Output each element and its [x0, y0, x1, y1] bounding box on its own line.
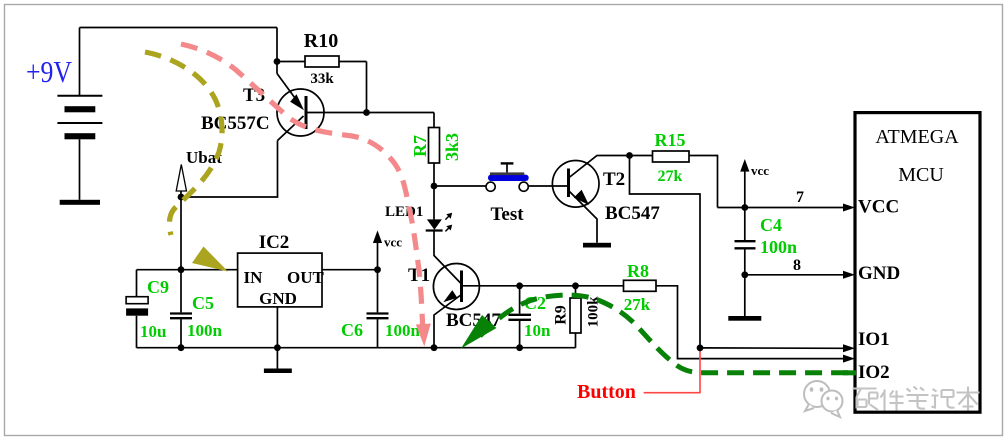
capacitor C4	[735, 241, 756, 248]
transistor T1	[433, 264, 479, 310]
node button / IO1	[697, 345, 704, 352]
vcc arrow at C4	[740, 159, 749, 172]
svg-text:27k: 27k	[658, 168, 683, 185]
wire R10 left lead	[277, 61, 305, 63]
wire IC2 OUT to vcc node	[322, 269, 378, 271]
node C2 top	[516, 282, 523, 289]
pink arrowhead	[416, 324, 431, 347]
svg-text:VCC: VCC	[858, 197, 899, 218]
svg-text:Button: Button	[577, 381, 636, 403]
node T2 collector / R15	[626, 152, 633, 159]
ground under IC2	[264, 369, 292, 374]
wire C9 branch	[136, 270, 138, 348]
svg-text:8: 8	[793, 257, 801, 274]
wire R10 right lead	[339, 61, 367, 63]
wire top rail	[80, 27, 278, 29]
svg-text:MCU: MCU	[898, 164, 944, 186]
svg-text:C5: C5	[192, 293, 214, 313]
wire LED cathode to T1 collector	[434, 231, 462, 284]
node R10 bottom / T3 base	[363, 109, 370, 116]
wire GND line to MCU	[745, 274, 844, 276]
wire VCC line to MCU	[718, 207, 845, 209]
node GND / C4	[741, 271, 748, 278]
node R7 / LED / Test	[431, 183, 438, 190]
svg-text:IC2: IC2	[259, 232, 290, 253]
svg-text:T2: T2	[603, 169, 625, 190]
watermark text 硬件笔记本 (simplified strokes)	[853, 387, 980, 411]
pink dashed highlight curve	[181, 44, 423, 333]
svg-text:LED1: LED1	[385, 204, 423, 220]
wire R7 bottom to LED node	[433, 163, 435, 186]
resistor R8	[624, 280, 657, 291]
wire vcc arrow stem at C4	[744, 171, 746, 208]
watermark wechat icon	[804, 381, 843, 417]
wire battery top lead	[79, 28, 81, 96]
ground under T2	[583, 243, 611, 248]
svg-text:R9: R9	[553, 305, 570, 325]
green dashed highlight curve	[480, 295, 853, 373]
svg-text:GND: GND	[259, 289, 297, 308]
node R9 top	[572, 282, 579, 289]
svg-text:10u: 10u	[140, 322, 166, 341]
red wire from Button label to button node	[644, 348, 700, 393]
IC2 box	[238, 253, 322, 307]
LED1	[426, 213, 453, 232]
battery BT1	[57, 96, 102, 200]
svg-text:BC557C: BC557C	[201, 113, 270, 134]
wire vcc arrow stem at C6	[377, 242, 379, 270]
node IC2 GND rail	[274, 344, 281, 351]
wire R10 node to R7	[306, 62, 435, 128]
svg-text:BC547: BC547	[605, 203, 660, 224]
wire T1 base line to R8	[461, 285, 624, 287]
node IC2 IN	[178, 266, 185, 273]
svg-text:Test: Test	[490, 204, 524, 225]
wire IC2 GND stub	[276, 307, 278, 369]
svg-text:vcc: vcc	[384, 235, 402, 250]
resistor R9	[570, 298, 581, 333]
svg-text:33k: 33k	[310, 71, 334, 87]
ground under battery	[60, 200, 100, 205]
wire LED anode lead	[433, 186, 435, 219]
wire IO1 line to MCU	[700, 347, 844, 349]
pin arrow IO2	[843, 355, 855, 363]
svg-text:100n: 100n	[385, 321, 421, 340]
node OUT / vcc	[374, 266, 381, 273]
wire C6 branch	[377, 270, 379, 348]
node C2 bottom	[516, 344, 523, 351]
pushbutton Test	[486, 163, 529, 191]
svg-text:27k: 27k	[624, 295, 651, 314]
svg-text:3k3: 3k3	[442, 133, 462, 161]
svg-text:ATMEGA: ATMEGA	[875, 126, 959, 148]
olive arrowhead	[192, 247, 228, 272]
svg-text:C6: C6	[341, 320, 363, 340]
ground under C4	[728, 316, 761, 321]
svg-text:+9V: +9V	[26, 54, 73, 89]
svg-text:vcc: vcc	[751, 163, 769, 178]
vcc arrow at C6	[373, 230, 382, 243]
wire R15 right lead down to VCC line	[689, 156, 718, 208]
wire LED node to Test button	[434, 185, 486, 187]
olive dashed highlight curve	[145, 52, 222, 235]
wire T2 emitter to ground	[569, 191, 598, 243]
pin arrow GND	[843, 271, 855, 279]
svg-text:7: 7	[796, 189, 804, 206]
resistor R7	[429, 128, 440, 164]
svg-text:IO2: IO2	[858, 362, 890, 383]
node Ubat	[178, 194, 185, 201]
svg-text:GND: GND	[858, 263, 900, 284]
node C5 bottom	[178, 344, 185, 351]
svg-text:R8: R8	[627, 261, 649, 281]
wire bottom rail	[137, 347, 576, 349]
wire from top rail down to T3 emitter	[276, 28, 278, 74]
wire Test button to T2 base	[528, 185, 568, 187]
svg-text:10n: 10n	[524, 321, 551, 340]
svg-text:IO1: IO1	[858, 329, 890, 350]
svg-text:C9: C9	[147, 277, 169, 297]
wire T3 collector to Ubat node	[181, 141, 278, 198]
svg-text:IN: IN	[244, 268, 264, 287]
node T1 emitter rail	[431, 344, 438, 351]
arrow Ubat	[176, 165, 186, 198]
node R10 left	[274, 58, 281, 65]
wire left column (Ubat node down through C5 to bottom rail)	[180, 197, 182, 348]
wire C4 leads	[744, 208, 746, 317]
wire R15 left lead	[630, 155, 653, 157]
wire C2 branch	[519, 286, 521, 348]
green arrowhead	[461, 315, 497, 349]
svg-text:R15: R15	[655, 130, 686, 150]
transistor T3	[277, 74, 324, 141]
wire T1 emitter to bottom rail	[434, 295, 462, 348]
svg-text:R7: R7	[410, 135, 430, 157]
svg-text:C4: C4	[760, 215, 782, 235]
transistor T2	[552, 161, 599, 208]
svg-text:R10: R10	[304, 30, 338, 52]
green dash at IO2 pin	[843, 370, 856, 375]
wire R8 right lead down and IO2 line to MCU	[656, 286, 844, 359]
capacitor C5	[170, 314, 192, 319]
wire T2 collector branch down to button node	[630, 156, 701, 348]
MCU box ATMEGA	[855, 113, 980, 413]
wire T2 collector to R15 node	[569, 156, 630, 179]
pin arrow IO1	[843, 344, 855, 352]
capacitor C6	[367, 314, 389, 319]
wire IN line (C9 corner to IC2 IN)	[137, 269, 238, 271]
svg-text:OUT: OUT	[287, 268, 325, 287]
resistor R15	[653, 151, 690, 162]
wire R9 leads	[575, 286, 577, 348]
svg-text:100n: 100n	[187, 321, 223, 340]
capacitor C2	[508, 315, 531, 320]
pin arrow VCC	[843, 204, 855, 212]
resistor R10	[305, 56, 339, 67]
capacitor C9 (electrolytic)	[126, 297, 148, 316]
node VCC / C4	[741, 204, 748, 211]
svg-text:100n: 100n	[760, 237, 797, 257]
